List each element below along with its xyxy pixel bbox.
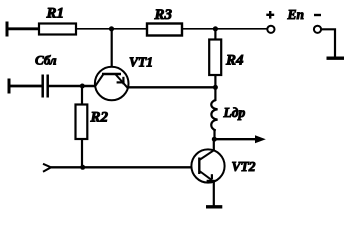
junction node A [109,26,114,31]
wire: - terminal to ground [321,29,335,57]
svg-text:VT2: VT2 [232,159,256,174]
wire: node C to Ldr [214,87,216,101]
wire: top-left terminal to R1 [6,27,40,30]
terminal tick: capacitor input [8,79,11,94]
junction node C: R4 bottom, Ldr top [213,85,218,90]
wire: R3 to + terminal [182,28,268,30]
transistor VT2 [191,149,224,182]
junction node D: output tap [212,137,217,142]
terminal tick: top-left input [6,22,9,37]
label + [266,11,274,19]
wire: node B to R4 [214,29,216,40]
label minus [314,14,321,16]
ground: negative supply [327,57,345,60]
wire: tick to Cbl [8,85,42,88]
svg-text:VT1: VT1 [129,54,153,69]
svg-text:R3: R3 [154,7,173,23]
wire: VT1 emitter to node C [129,86,216,88]
wire: Ldr to node D [213,130,215,139]
svg-text:R1: R1 [46,6,65,22]
resistor R3 [147,24,182,36]
wire: Cbl to VT1 [48,85,96,88]
wire: node D to VT2 collector [213,139,215,151]
wire: R4 to node C [214,75,216,87]
resistor R4 [209,40,221,76]
ground: VT2 emitter [206,205,222,208]
capacitor Cbl [43,75,48,98]
wire: junction down to R2 [81,86,83,105]
wire: input line to VT2 base [51,166,193,168]
svg-text:R2: R2 [90,110,109,126]
transistor VT1 [95,67,129,101]
svg-text:Еп: Еп [287,7,305,22]
terminal -: Ep negative [314,26,321,33]
junction on input line [80,165,85,170]
junction: R2 tap on base wire [80,84,85,89]
terminal +: Ep positive [267,26,274,33]
output arrow [214,138,259,140]
inductor Ldr [211,100,217,131]
resistor R2 [76,105,88,140]
svg-text:R4: R4 [225,53,244,69]
wire: node A down to VT1 base [111,29,113,74]
wire: R2 to input line [81,139,83,167]
resistor R1 [39,24,76,35]
wire: R1 to node A [76,28,147,30]
svg-text:Lдр: Lдр [223,105,246,120]
wire: VT2 emitter to ground [213,181,215,207]
junction node B: top of R4 [213,26,218,31]
input arrow bottom-left [43,164,51,172]
svg-text:Сбл: Сбл [35,53,57,68]
